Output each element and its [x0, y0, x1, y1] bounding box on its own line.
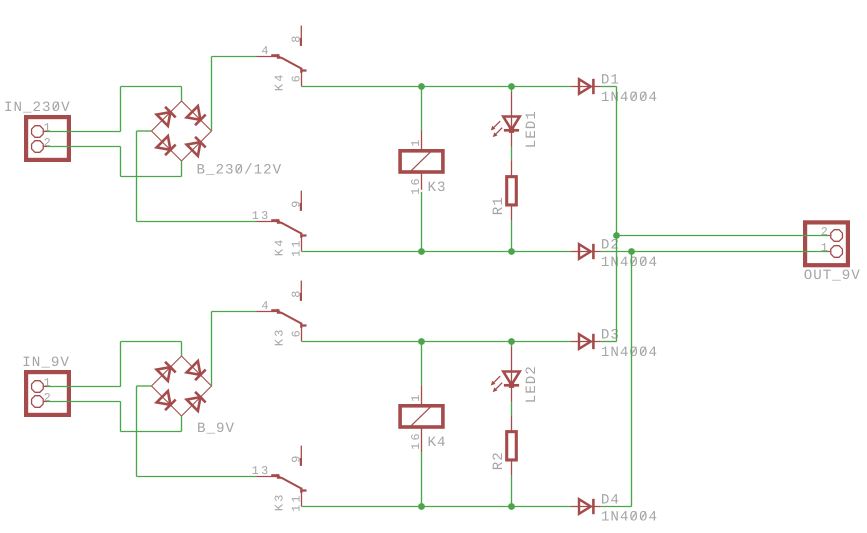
wire D4 cathode out (horizontal) — [601, 506, 632, 508]
junction coil K4 bottom net — [418, 503, 425, 510]
wire drop to bridge B2 AC top corner — [181, 342, 183, 357]
svg-text:K3: K3 — [272, 492, 286, 511]
resistor R2 body — [507, 432, 517, 460]
relay contact K3 (pins 4-8-6) arm tip tick — [301, 324, 306, 326]
svg-text:4: 4 — [261, 44, 270, 58]
wire D3 cathode out (horizontal) — [601, 341, 617, 343]
svg-text:K3: K3 — [428, 180, 447, 196]
diode D3 triangle — [579, 334, 591, 349]
LED LED1 triangle — [503, 117, 519, 130]
wire drop to bridge B1 AC top corner — [181, 87, 183, 102]
svg-text:B_9V: B_9V — [197, 421, 235, 437]
svg-text:1: 1 — [409, 392, 423, 401]
diode D3 pin line — [571, 341, 601, 343]
LED LED2 cathode bar — [504, 384, 519, 387]
diode D4 triangle — [579, 499, 591, 514]
relay contact K3 (pins 4-8-6) NO pin line — [301, 327, 303, 342]
svg-text:1N4004: 1N4004 — [601, 345, 658, 361]
relay contact K4 (pins 13-9-11) movable arm — [271, 219, 279, 221]
svg-text:R2: R2 — [491, 451, 507, 470]
wire rise to bridge B1 AC bottom corner — [181, 161, 183, 177]
wire net from K4 pin 11 across coil and LED columns — [302, 251, 572, 253]
LED LED1 cathode bar — [504, 129, 519, 132]
bridge diode B1 upper-left — [157, 112, 171, 126]
diode D2 triangle — [579, 244, 591, 259]
wire to bridge B1 AC bottom (horizontal) — [121, 176, 182, 178]
relay coil K3 pin 1 line — [421, 131, 423, 151]
junction OUT pin2 tap — [613, 232, 620, 239]
svg-text:6: 6 — [289, 328, 303, 337]
svg-text:K3: K3 — [272, 327, 286, 346]
LED LED2 triangle — [503, 372, 519, 385]
wire from R2 (vertical) — [511, 476, 513, 507]
wire net from K3 pin 11 across coil and LED columns — [302, 506, 572, 508]
wire IN_9V pin1 to riser (horizontal) — [47, 386, 121, 388]
relay contact K4 (pins 13-9-11) arm tip tick — [301, 234, 306, 236]
wire IN_9V pin2 (horizontal) — [47, 401, 121, 403]
diode D1 pin line — [571, 86, 601, 88]
relay contact K3 (pins 13-9-11) NC pin stub — [300, 446, 302, 463]
wire IN_230V pin2 (horizontal) — [47, 146, 121, 148]
wire to contact K4 pin 4 (horizontal) — [212, 56, 257, 58]
relay coil K3 pin 16 line — [421, 172, 423, 190]
diode D3 cathode bar — [592, 334, 595, 349]
relay contact K4 (pins 4-8-6) NC pin stub — [300, 26, 302, 43]
LED LED1 emission arrow 2 — [496, 128, 503, 135]
wire to coil K4 pin 1 (vertical) — [421, 342, 423, 386]
bridge rectifier B2 outline — [152, 356, 212, 416]
diode D1 cathode bar — [592, 79, 595, 94]
relay coil K4 body — [400, 406, 443, 427]
bridge diode B2 lower-left — [157, 391, 171, 405]
relay contact K4 (pins 4-8-6) movable arm — [271, 54, 279, 56]
diode D2 pin line — [571, 251, 601, 253]
relay contact K3 (pins 4-8-6) movable arm — [271, 309, 279, 311]
svg-text:8: 8 — [289, 288, 303, 297]
wire from coil K4 pin 16 (vertical) — [421, 452, 423, 507]
wire to bridge B2 AC bottom (horizontal) — [121, 431, 182, 433]
relay coil K3 body — [400, 151, 443, 172]
relay contact K3 (pins 4-8-6) common pin line — [257, 311, 278, 313]
svg-text:OUT_9V: OUT_9V — [804, 268, 861, 284]
connector IN_9V pin 1 pad — [32, 381, 44, 393]
svg-text:LED1: LED1 — [524, 110, 540, 148]
relay coil K4 pin 16 line — [421, 427, 423, 452]
svg-text:K4: K4 — [272, 72, 286, 91]
svg-text:1: 1 — [44, 121, 53, 135]
junction coil K3 top net — [418, 83, 425, 90]
relay contact K4 (pins 13-9-11) NO pin line — [301, 237, 303, 252]
bridge rectifier B1 outline — [152, 101, 212, 161]
svg-text:K4: K4 — [428, 435, 447, 451]
wire from R1 (vertical) — [511, 221, 513, 252]
relay contact K3 (pins 13-9-11) movable arm — [271, 474, 279, 476]
resistor R2 pin lines — [511, 415, 513, 432]
resistor R1 body — [507, 177, 517, 205]
svg-text:9: 9 — [289, 453, 303, 462]
svg-text:1: 1 — [44, 376, 53, 390]
LED LED2 emission arrow 2 — [496, 383, 503, 390]
junction LED2 top net — [508, 338, 515, 345]
svg-text:R1: R1 — [491, 196, 507, 215]
LED LED2 emission arrow 1 — [494, 376, 501, 383]
wire rise to bridge B2 AC bottom corner — [181, 416, 183, 432]
svg-text:2: 2 — [821, 225, 830, 239]
svg-text:2: 2 — [44, 391, 53, 405]
relay contact K4 (pins 4-8-6) NO pin line — [301, 72, 303, 87]
svg-text:8: 8 — [289, 33, 303, 42]
svg-text:2: 2 — [44, 136, 53, 150]
wire IN_230V pin2 drop (vertical) — [120, 147, 122, 177]
LED LED1 pin line — [511, 92, 513, 147]
wire bridge B1 plus riser (vertical) — [211, 57, 213, 132]
wire bridge B2 minus drop (vertical) — [136, 386, 138, 477]
connector OUT_9V body — [805, 222, 848, 265]
bridge diode B2 upper-left — [157, 367, 171, 381]
wire to LED1 anode — [511, 87, 513, 93]
wire D2 cathode out (horizontal) — [601, 251, 632, 253]
relay contact K4 (pins 4-8-6) common pin line — [257, 56, 278, 58]
connector OUT_9V pin 2 pad — [831, 230, 843, 242]
wire to OUT_9V pin 2 (horizontal) — [617, 235, 829, 237]
svg-text:1N4004: 1N4004 — [601, 90, 658, 106]
junction LED1 top net — [508, 83, 515, 90]
relay contact K4 (pins 13-9-11) common pin line — [257, 221, 278, 223]
resistor R1 pin lines — [511, 160, 513, 177]
wire IN_230V pin1 to riser (horizontal) — [47, 131, 121, 133]
connector IN_230V pin 1 pad — [32, 126, 44, 138]
wire to bridge B2 AC top (horizontal) — [121, 341, 182, 343]
svg-text:1N4004: 1N4004 — [601, 510, 658, 526]
junction coil K3 bottom net — [418, 248, 425, 255]
wire from coil K3 pin 16 (vertical) — [421, 192, 423, 252]
svg-text:9: 9 — [289, 198, 303, 207]
svg-text:1: 1 — [821, 241, 830, 255]
svg-text:1N4004: 1N4004 — [601, 255, 658, 271]
wire to contact K3 pin 13 (horizontal) — [137, 476, 257, 478]
wire bridge B1 minus drop (vertical) — [136, 131, 138, 222]
diode D4 pin line — [571, 506, 601, 508]
connector IN_9V body — [26, 372, 69, 415]
diode D1 triangle — [579, 79, 591, 94]
diode D4 cathode bar — [592, 499, 595, 514]
relay contact K4 (pins 4-8-6) arm tip tick — [301, 69, 306, 71]
svg-text:11: 11 — [289, 493, 303, 512]
relay contact K3 (pins 4-8-6) NC pin stub — [300, 281, 302, 298]
svg-text:LED2: LED2 — [524, 365, 540, 403]
wire bridge B2 plus riser (vertical) — [211, 312, 213, 387]
bridge diode B1 lower-left — [157, 136, 171, 150]
wire net from K4 pin 6 across coil and LED columns — [302, 86, 572, 88]
wire to LED2 anode — [511, 342, 513, 348]
svg-text:K4: K4 — [272, 237, 286, 256]
LED LED1 emission arrow 1 — [494, 121, 501, 128]
wire LED2 cathode to R2 — [511, 402, 513, 416]
svg-text:B_230/12V: B_230/12V — [197, 163, 283, 179]
wire IN_230V pin1 riser (vertical) — [120, 87, 122, 132]
connector IN_230V pin 2 pad — [32, 141, 44, 153]
wire right bus 1 (vertical) — [616, 87, 618, 342]
connector IN_9V pin 2 pad — [32, 396, 44, 408]
bridge diode B1 lower-right — [187, 142, 201, 156]
relay contact K3 (pins 13-9-11) NO pin line — [301, 492, 303, 507]
bridge diode B1 upper-right — [187, 106, 201, 120]
wire IN_9V pin1 riser (vertical) — [120, 342, 122, 387]
bridge diode B2 lower-right — [187, 397, 201, 411]
svg-text:1: 1 — [409, 137, 423, 146]
svg-text:IN_230V: IN_230V — [4, 100, 71, 116]
wire bridge B2 minus stub (horizontal) — [137, 385, 152, 387]
wire to contact K3 pin 4 (horizontal) — [212, 311, 257, 313]
svg-text:4: 4 — [261, 299, 270, 313]
svg-text:16: 16 — [409, 431, 423, 450]
LED LED2 pin line — [511, 347, 513, 402]
relay contact K3 (pins 13-9-11) common pin line — [257, 476, 278, 478]
wire D1 cathode out (horizontal) — [601, 86, 617, 88]
wire IN_9V pin2 drop (vertical) — [120, 402, 122, 432]
wire net from K3 pin 6 across coil and LED columns — [302, 341, 572, 343]
relay contact K3 (pins 13-9-11) arm tip tick — [301, 489, 306, 491]
junction R1 bottom net — [508, 248, 515, 255]
relay coil K4 pin 1 line — [421, 386, 423, 406]
wire to contact K4 pin 13 (horizontal) — [137, 221, 257, 223]
wire bridge B1 minus stub (horizontal) — [137, 130, 152, 132]
svg-text:11: 11 — [289, 238, 303, 257]
svg-text:6: 6 — [289, 73, 303, 82]
diode D2 cathode bar — [592, 244, 595, 259]
wire LED1 cathode to R1 — [511, 147, 513, 161]
bridge diode B2 upper-right — [187, 361, 201, 375]
junction OUT pin1 tap — [628, 248, 635, 255]
wire to coil K3 pin 1 (vertical) — [421, 87, 423, 131]
connector OUT_9V pin 1 pad — [831, 246, 843, 258]
junction R2 bottom net — [508, 503, 515, 510]
junction coil K4 top net — [418, 338, 425, 345]
wire to bridge B1 AC top (horizontal) — [121, 86, 182, 88]
connector IN_230V body — [26, 117, 69, 160]
svg-text:IN_9V: IN_9V — [22, 355, 70, 371]
wire right bus 2 (vertical) — [631, 252, 633, 507]
wire to OUT_9V pin 1 (horizontal) — [632, 251, 829, 253]
relay contact K4 (pins 13-9-11) NC pin stub — [300, 191, 302, 208]
